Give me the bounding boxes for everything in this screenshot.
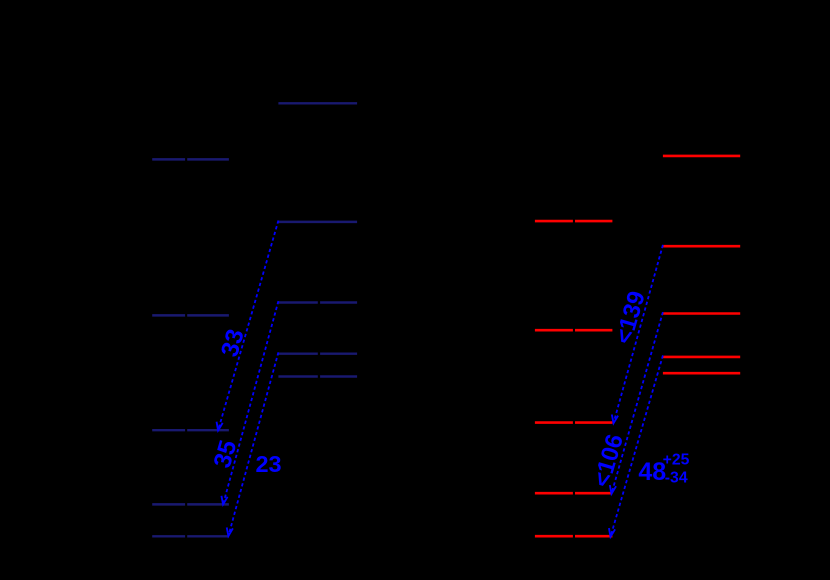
level R4 y=493.2 bbox=[535, 492, 613, 495]
level L5 y=536.3 bbox=[152, 535, 229, 537]
arrow <106 bbox=[610, 312, 663, 494]
level S4 y=356.9 bbox=[663, 356, 740, 359]
level R1 y=221.1 bbox=[535, 220, 613, 223]
level L3 y=430.2 bbox=[152, 429, 229, 431]
level L4 y=504.4 bbox=[152, 503, 229, 505]
arrow 33 bbox=[217, 221, 279, 431]
level R5 y=536.2 bbox=[535, 535, 613, 538]
level M5 y=376.5 bbox=[278, 375, 357, 377]
level S3 y=313.5 bbox=[663, 312, 740, 315]
svg-text:33: 33 bbox=[216, 326, 249, 360]
svg-text:+25: +25 bbox=[663, 451, 690, 468]
svg-text:23: 23 bbox=[255, 451, 281, 477]
level M2 y=221.9 bbox=[278, 221, 357, 223]
svg-text:<139: <139 bbox=[610, 288, 651, 347]
level S2 y=246.2 bbox=[663, 245, 740, 248]
level L2 y=315.4 bbox=[152, 314, 229, 316]
arrow 35 bbox=[222, 301, 279, 504]
arrow 48 bbox=[609, 355, 663, 536]
level S1 y=155.9 bbox=[663, 155, 740, 158]
svg-text:<106: <106 bbox=[588, 431, 629, 490]
svg-text:-34: -34 bbox=[665, 469, 688, 486]
level M3 y=302.5 bbox=[278, 301, 357, 303]
arrow <139 bbox=[612, 245, 663, 423]
level S5 y=373.2 bbox=[663, 372, 740, 375]
level R2 y=330.2 bbox=[535, 329, 613, 332]
arrow 23 bbox=[227, 352, 279, 536]
level L1 y=159.4 bbox=[152, 158, 229, 160]
level M1 y=103.3 bbox=[278, 102, 357, 104]
label 48 +25 -34 bbox=[638, 451, 689, 486]
level M4 y=353.7 bbox=[278, 352, 357, 354]
level R3 y=422.6 bbox=[535, 421, 613, 424]
svg-text:35: 35 bbox=[209, 437, 242, 471]
